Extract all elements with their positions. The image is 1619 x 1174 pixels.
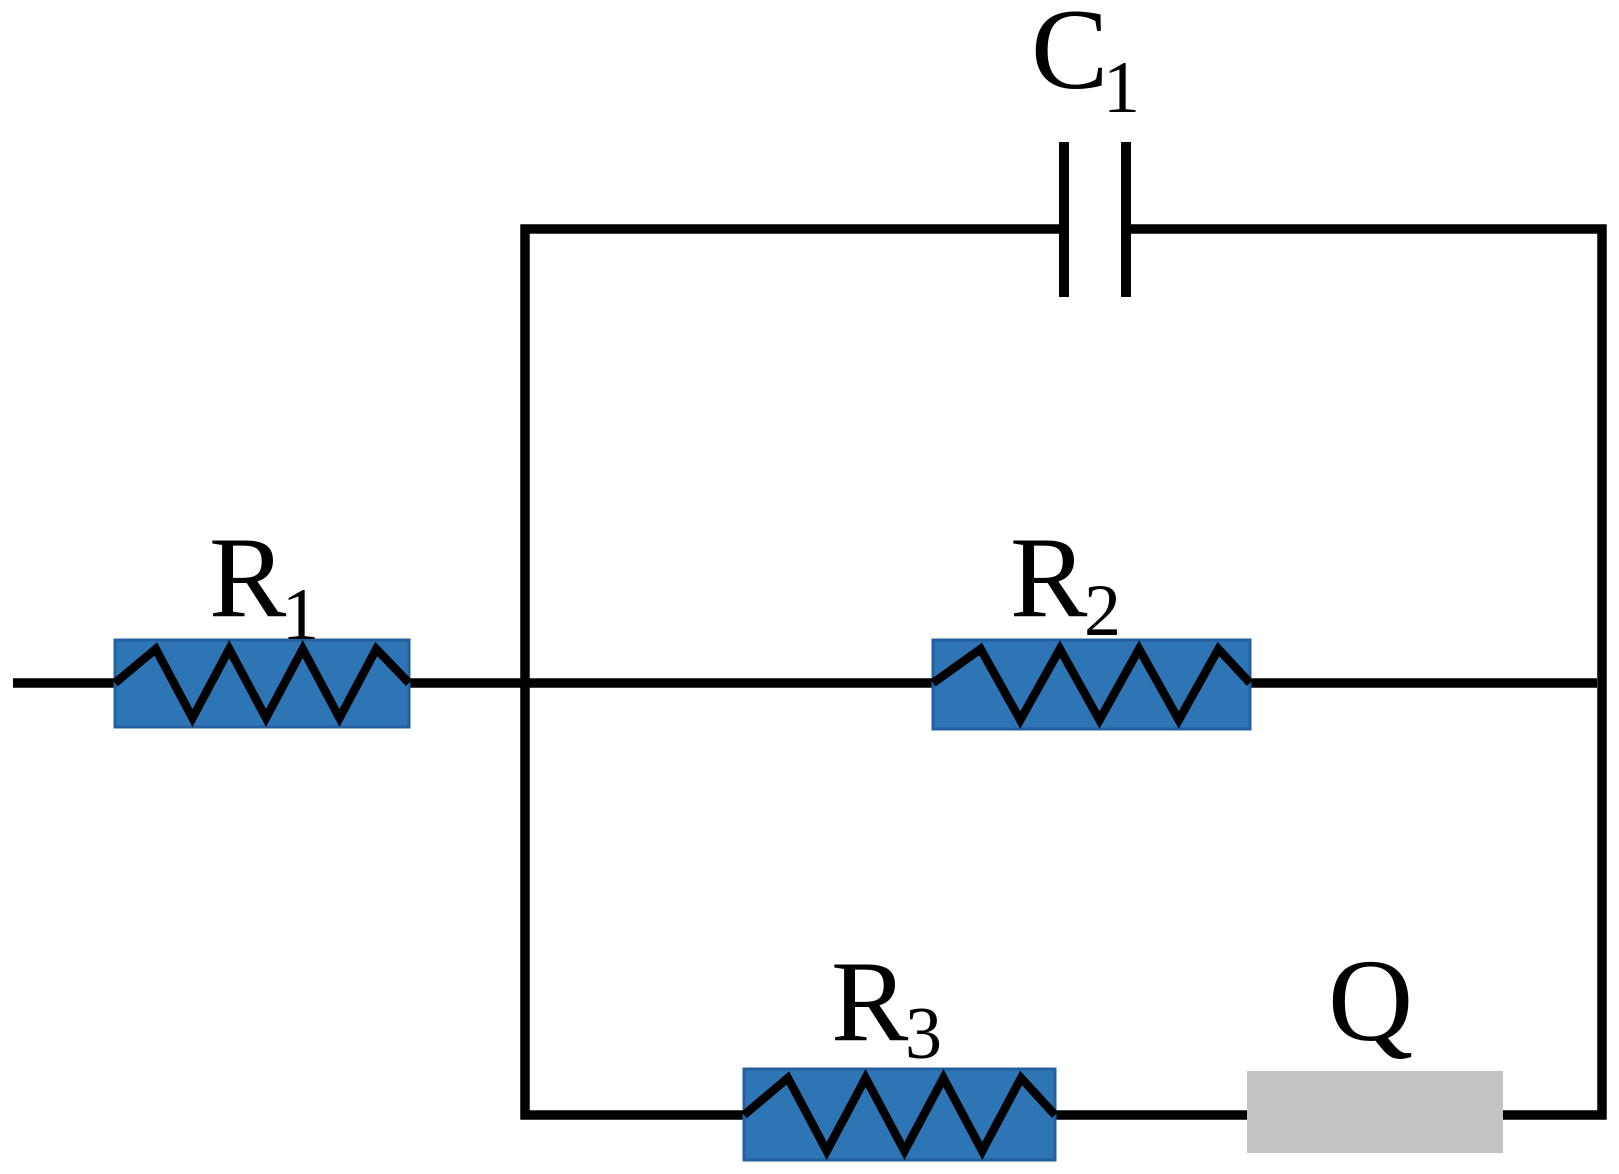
svg-text:R: R [1010,514,1088,642]
wire: top branch left segment (junction to C1 left plate) [521,224,1060,234]
svg-text:C: C [1031,0,1108,114]
resistor R3 zigzag [744,1078,1055,1151]
svg-text:R: R [209,514,287,642]
wire: right vertical rail [1597,225,1607,1120]
svg-text:3: 3 [905,993,942,1075]
capacitor C1 left plate [1059,142,1069,297]
svg-text:2: 2 [1084,570,1121,652]
capacitor C1 right plate [1121,142,1131,297]
svg-text:1: 1 [282,574,319,656]
wire: left vertical rail at junction node [520,225,530,1120]
wire: top branch right segment (C1 right plate to right rail) [1131,224,1607,234]
resistor R2 zigzag [933,649,1250,720]
svg-text:R: R [831,938,909,1066]
svg-text:1: 1 [1103,47,1140,129]
resistor R3 body [744,1069,1055,1160]
resistor R2 body [933,640,1250,729]
resistor R1 body [115,640,409,727]
svg-text:Q: Q [1328,935,1413,1066]
wire: middle horizontal rail (input through R1 and R2 to right rail) [13,678,1597,688]
CPE element Q body [1247,1071,1503,1153]
wire: bottom branch (junction through R3 and Q to right rail) [521,1110,1607,1120]
resistor R1 zigzag [115,649,409,718]
